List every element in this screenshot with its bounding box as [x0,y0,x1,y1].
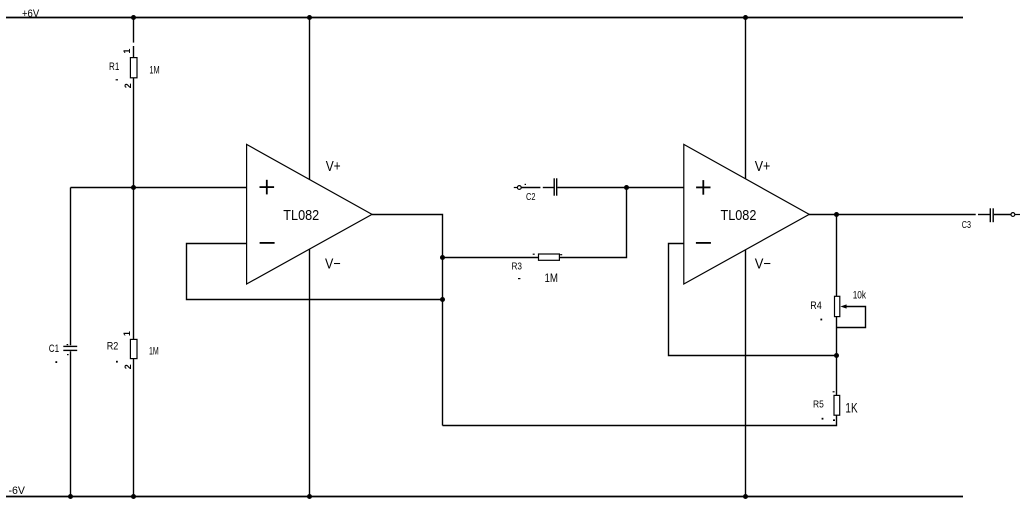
wire: op1 V+ / V- vertical x=309 (hidden inside triangle) [309,18,311,497]
wire: op1 noninverting input [134,187,247,189]
wire: op1 output [372,215,443,426]
wire: op1 inverting input feedback loop [187,244,443,300]
wire: C2 node to op2 noninverting input [627,187,684,189]
svg-text:1M: 1M [545,271,559,285]
capacitor C3 with output terminal [962,208,1020,231]
resistor R2 1M [107,328,159,371]
capacitor C2 with input terminal [514,178,627,203]
capacitor C1 [49,343,77,363]
svg-text:R3: R3 [512,261,523,272]
op-amp U1 TL082 [247,144,372,284]
junction bottom rail at op1 V- [307,494,312,499]
svg-text:TL082: TL082 [721,207,757,224]
potentiometer R4 10k [810,289,866,327]
junction op2 output [834,212,839,217]
svg-text:C3: C3 [962,219,971,231]
svg-text:1M: 1M [149,64,159,76]
svg-text:+6V: +6V [22,8,40,20]
svg-text:1M: 1M [149,346,159,358]
wire: horizontal C1-top to divider node [71,187,134,189]
wire: bottom feedback run to R5 [443,415,837,425]
junction C2 / R3 / op2 input [624,185,629,190]
wire: R4 bottom to node and R5 top [836,317,838,396]
svg-text:1: 1 [122,331,132,336]
svg-text:TL082: TL082 [283,207,319,224]
svg-text:2: 2 [123,83,133,88]
op-amp U2 TL082 [684,144,809,284]
junction divider node [131,185,136,190]
svg-text:V−: V− [755,255,772,272]
junction op1 output / R3 [440,255,445,260]
wire: op2 output down to R4 [836,215,838,297]
svg-text:-6V: -6V [9,485,26,497]
wire: C3 left pin [978,214,990,216]
junction op1 output / feedback [440,297,445,302]
junction top rail at R1 [131,15,136,20]
svg-text:V+: V+ [755,158,771,175]
wire: vertical R1/R2 branch x=133 from +6V to -6V [133,18,135,497]
wire: op2 inverting input feedback loop [669,244,837,356]
power rail -6V [6,485,963,497]
wire: op2 V+ / V- vertical x=745.5 (hidden inside triangle) [745,18,747,497]
svg-text:2: 2 [123,364,133,369]
svg-text:1: 1 [122,49,132,54]
svg-text:C2: C2 [526,192,536,203]
junction bottom rail at R2 [131,494,136,499]
wire: C1 branch vertical lower [70,351,72,496]
resistor R1 1M [109,43,160,90]
junction bottom rail at C1 [68,494,73,499]
resistor R3 1M [443,254,563,285]
svg-text:R4: R4 [810,300,822,312]
resistor R5 1K [813,391,858,421]
svg-text:C1: C1 [49,343,59,355]
wire: op2 output to C3 [809,214,976,216]
junction bottom rail at op2 V- [743,494,748,499]
svg-text:1K: 1K [845,400,857,415]
junction top rail at op1 V+ [307,15,312,20]
svg-text:10k: 10k [853,289,867,301]
wire: C1 branch vertical upper [70,188,72,346]
svg-text:V+: V+ [326,158,341,175]
svg-text:R2: R2 [107,341,119,353]
wire: R3 right to C2 node [559,188,626,258]
junction R4/R5/feedback node [834,353,839,358]
junction top rail at op2 V+ [743,15,748,20]
svg-text:R5: R5 [813,399,824,411]
power rail +6V [6,8,963,20]
svg-text:R1: R1 [109,61,119,73]
svg-text:V−: V− [325,255,341,272]
